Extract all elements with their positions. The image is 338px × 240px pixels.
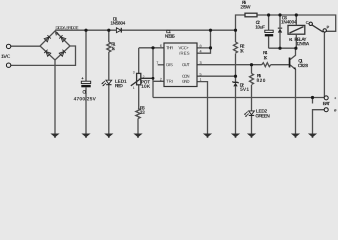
svg-text:5: 5 (199, 73, 201, 77)
svg-text:1: 1 (199, 78, 201, 82)
terminal AC lower (6, 63, 10, 67)
node toprail-C2 (267, 13, 270, 16)
wire THR/TRI tie (139, 48, 164, 98)
ground bridge (50, 134, 59, 138)
bridge diode TL (44, 35, 51, 42)
svg-text:5A: 5A (55, 31, 59, 36)
svg-text:2: 2 (143, 75, 145, 79)
svg-text:DIODA_BRIDGE: DIODA_BRIDGE (56, 25, 79, 30)
wire GND pin1 (197, 82, 208, 134)
svg-text:1K: 1K (264, 55, 269, 61)
wire OUT pin3 / resistor R4 (197, 63, 289, 67)
relay contact P (323, 29, 326, 32)
diode D3 (278, 15, 282, 48)
svg-text:1N5804: 1N5804 (110, 21, 125, 27)
bridge diode BL (44, 50, 51, 57)
ground IC (203, 134, 212, 138)
IC U1 NE555 box (164, 43, 197, 87)
svg-text:C: C (306, 20, 309, 25)
wire CON pin5 (197, 75, 236, 77)
bridge diode TR (59, 35, 66, 42)
capacitor C1 plates (81, 81, 90, 83)
diode bridge diamond (40, 31, 70, 60)
node OUT-R5 (250, 63, 253, 66)
svg-text:VCC+: VCC+ (179, 45, 190, 50)
LED LED2 arrows (244, 112, 249, 117)
wire rail up to R6 / top rail / right loop (236, 15, 336, 31)
svg-text:7: 7 (156, 61, 158, 65)
pot wiper arrow and wire (131, 78, 153, 86)
relay K1 coil (288, 25, 305, 34)
svg-text:3: 3 (133, 70, 135, 74)
ground LED1 (104, 134, 113, 138)
svg-text:/RES: /RES (179, 51, 190, 56)
resistor R6 box (245, 13, 257, 17)
capacitor C2 plates (265, 30, 273, 32)
node rail-VCC (209, 29, 212, 32)
svg-text:GND: GND (182, 79, 190, 84)
svg-text:4700/25V: 4700/25V (74, 96, 97, 102)
svg-text:2/5W: 2/5W (240, 5, 251, 11)
svg-text:10K: 10K (141, 84, 150, 90)
svg-text:4: 4 (200, 50, 202, 54)
svg-text:15VAC: 15VAC (1, 54, 11, 60)
svg-text:C828: C828 (298, 63, 309, 69)
bridge diode BR (59, 50, 66, 57)
capacitor C1 plus (82, 77, 84, 79)
node toprail-coil (295, 13, 298, 16)
wire lower AC input (11, 46, 76, 65)
node bat-plus (311, 96, 314, 99)
junction dots (84, 13, 314, 99)
node rail-C1 (84, 29, 87, 32)
transistor Q1 base bar (289, 58, 291, 68)
wire coil bottom node (269, 47, 297, 49)
LED LED1 stem (108, 85, 110, 134)
pin7 DIS stub (158, 64, 164, 66)
LED LED1 (106, 80, 112, 84)
node VCC-RES (209, 46, 212, 49)
potentiometer POT stems (138, 48, 140, 109)
ground BAT (308, 134, 317, 138)
svg-text:GREEN: GREEN (255, 113, 270, 119)
svg-text:BAT: BAT (323, 101, 330, 107)
svg-text:P: P (327, 25, 330, 30)
terminal BAT minus (324, 108, 328, 112)
ground Q1 (291, 134, 300, 138)
diode D1 (116, 28, 121, 33)
wire bridge bottom to ground (54, 60, 56, 134)
ground D2 (231, 134, 240, 138)
terminal AC upper (6, 44, 10, 48)
node coilbot-D3 (278, 47, 281, 50)
wire battery sense line (153, 97, 325, 99)
relay contact C (309, 22, 312, 25)
pin numbers (133, 44, 202, 90)
svg-text:1K: 1K (240, 48, 245, 54)
svg-text:1N4004: 1N4004 (281, 19, 297, 25)
IC pin names (166, 45, 190, 83)
capacitor C2 (268, 15, 270, 48)
svg-text:TRI: TRI (166, 79, 173, 84)
svg-text:THR: THR (166, 45, 173, 50)
wire main +rail (55, 29, 236, 31)
svg-text:2: 2 (160, 77, 162, 81)
ground R3 (133, 134, 142, 138)
svg-text:5V1: 5V1 (240, 87, 249, 93)
wire upper AC input (11, 45, 40, 47)
relay switch arm (312, 25, 323, 32)
wire relay P to BAT plus (323, 32, 325, 97)
node coilbot-collector (294, 47, 297, 50)
node toprail-D3 (278, 13, 281, 16)
svg-text:3: 3 (200, 61, 202, 65)
transistor Q1 emitter arrow (293, 67, 296, 70)
resistor R5 / LED2 chain (250, 65, 254, 134)
ground LED2 (247, 134, 256, 138)
svg-text:1k: 1k (111, 46, 115, 52)
node CON-D2 (234, 75, 237, 78)
svg-text:12V/5A: 12V/5A (296, 41, 310, 47)
zener D2 (232, 81, 238, 83)
node wiper-tie (152, 77, 155, 80)
ground C1 (81, 134, 90, 138)
node THR-TRI (151, 46, 154, 49)
capacitor C1 (85, 30, 87, 134)
svg-text:OUT: OUT (182, 62, 190, 67)
terminal BAT plus (324, 96, 328, 100)
diode D3 triangle (278, 28, 282, 32)
node rail-R2R6 (234, 29, 237, 32)
svg-text:DIS: DIS (166, 62, 173, 67)
resistor R1 (107, 30, 111, 80)
svg-text:1: 1 (133, 86, 135, 90)
LED LED1 arrows (101, 81, 106, 86)
svg-text:6: 6 (160, 44, 162, 48)
svg-text:NE555: NE555 (165, 34, 175, 40)
resistor R2 (234, 30, 238, 82)
svg-text:C1: C1 (82, 90, 87, 96)
node rail-R1 (107, 29, 110, 32)
svg-text:820: 820 (256, 78, 265, 84)
LED LED2 (249, 111, 255, 115)
resistor R3 (136, 109, 140, 135)
wire BAT minus (313, 98, 325, 135)
terminal circles (6, 22, 328, 112)
svg-text:33: 33 (140, 110, 145, 116)
wire VCC/RES to rail (197, 30, 211, 53)
svg-text:8: 8 (200, 44, 202, 48)
transistor Q1 collector/emitter (290, 48, 295, 134)
zener D2 triangle (233, 83, 237, 87)
svg-text:10uF: 10uF (255, 25, 265, 31)
svg-text:RED: RED (115, 83, 124, 89)
pot wiper arrowhead (139, 78, 142, 80)
